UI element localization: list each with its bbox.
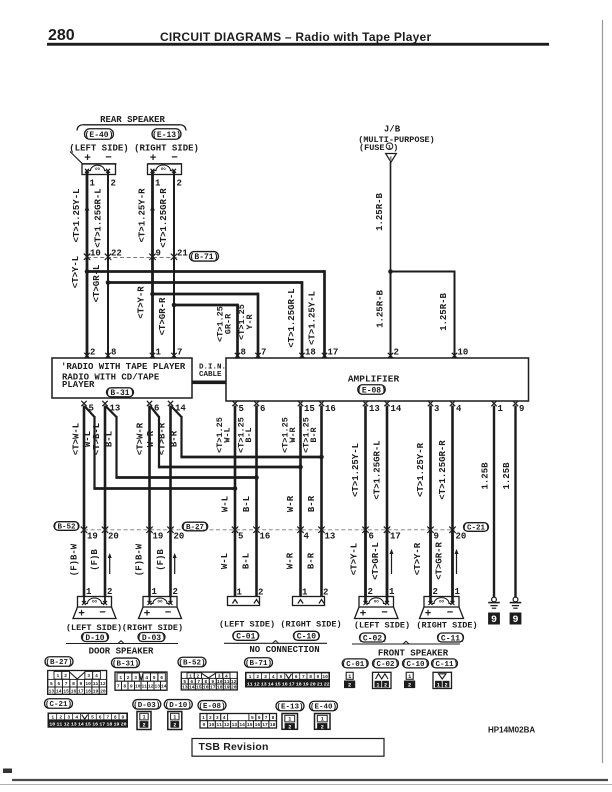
svg-text:9: 9 xyxy=(122,714,125,720)
svg-text:12: 12 xyxy=(254,681,260,687)
svg-text:(E-13): (E-13) xyxy=(152,131,181,140)
svg-text:7: 7 xyxy=(302,674,305,680)
svg-text:1: 1 xyxy=(202,715,205,721)
svg-text:6: 6 xyxy=(369,532,374,542)
svg-text:4: 4 xyxy=(304,532,310,542)
svg-text:<T>1.25GR-L: <T>1.25GR-L xyxy=(287,288,297,347)
svg-text:(RIGHT SIDE): (RIGHT SIDE) xyxy=(134,144,199,154)
svg-text:<T>GR-R: <T>GR-R xyxy=(435,542,445,580)
svg-text:oo: oo xyxy=(374,601,380,605)
svg-text:oo: oo xyxy=(161,168,167,172)
svg-text:15: 15 xyxy=(196,685,202,691)
svg-text:11: 11 xyxy=(57,722,63,728)
svg-text:13: 13 xyxy=(325,532,336,542)
svg-text:W-L: W-L xyxy=(221,496,231,512)
svg-text:W-L: W-L xyxy=(220,553,230,569)
svg-text:13: 13 xyxy=(49,688,55,694)
svg-text:(E-08): (E-08) xyxy=(198,703,225,711)
svg-text:20: 20 xyxy=(121,722,127,728)
svg-text:1: 1 xyxy=(51,714,54,720)
svg-text:W-R: W-R xyxy=(286,495,296,512)
svg-text:15: 15 xyxy=(304,404,315,414)
svg-text:11: 11 xyxy=(216,722,222,728)
svg-text:3: 3 xyxy=(134,675,137,681)
svg-text:(D-03): (D-03) xyxy=(133,702,160,710)
svg-text:REAR SPEAKER: REAR SPEAKER xyxy=(100,115,165,125)
svg-text:CIRCUIT DIAGRAMS – Radio with: CIRCUIT DIAGRAMS – Radio with Tape Playe… xyxy=(160,30,431,44)
svg-text:18: 18 xyxy=(85,688,91,694)
svg-text:12: 12 xyxy=(224,722,230,728)
svg-text:9: 9 xyxy=(79,681,82,687)
svg-text:10: 10 xyxy=(90,249,101,259)
svg-text:12: 12 xyxy=(64,722,70,728)
svg-text:(C-01): (C-01) xyxy=(231,633,260,642)
svg-text:16: 16 xyxy=(325,404,336,414)
svg-text:(B-71): (B-71) xyxy=(245,660,272,668)
svg-text:2: 2 xyxy=(348,683,351,689)
svg-text:15: 15 xyxy=(85,722,91,728)
svg-text:1: 1 xyxy=(56,673,59,679)
svg-text:(D-03): (D-03) xyxy=(137,634,166,643)
svg-text:B-R: B-R xyxy=(307,552,317,569)
svg-text:<T>Y-R: <T>Y-R xyxy=(413,542,423,575)
svg-text:10: 10 xyxy=(209,722,215,728)
svg-text:12: 12 xyxy=(100,681,106,687)
svg-text:1: 1 xyxy=(152,587,158,597)
svg-text:15: 15 xyxy=(247,722,253,728)
svg-text:5: 5 xyxy=(239,404,244,414)
svg-text:2: 2 xyxy=(59,714,62,720)
svg-text:11: 11 xyxy=(141,683,147,689)
svg-text:1: 1 xyxy=(173,715,176,721)
svg-text:13: 13 xyxy=(369,404,380,414)
svg-text:6: 6 xyxy=(160,675,163,681)
svg-text:−: − xyxy=(105,153,112,165)
svg-text:2: 2 xyxy=(444,682,447,688)
svg-text:(LEFT SIDE): (LEFT SIDE) xyxy=(69,144,128,154)
svg-text:19: 19 xyxy=(153,532,164,542)
svg-text:7: 7 xyxy=(117,683,120,689)
svg-text:5: 5 xyxy=(251,715,254,721)
svg-text:9: 9 xyxy=(434,532,439,542)
svg-text:B-L: B-L xyxy=(244,427,254,442)
svg-text:13: 13 xyxy=(182,685,188,691)
svg-text:9: 9 xyxy=(156,249,161,259)
svg-text:5: 5 xyxy=(91,714,94,720)
svg-text:(C-11): (C-11) xyxy=(436,634,465,643)
svg-text:14: 14 xyxy=(161,683,167,689)
svg-text:3: 3 xyxy=(67,714,70,720)
svg-text:5: 5 xyxy=(153,675,156,681)
svg-text:7: 7 xyxy=(65,681,68,687)
svg-text:19: 19 xyxy=(93,688,99,694)
svg-text:<T>B-L: <T>B-L xyxy=(92,423,102,455)
svg-text:<T>1.25Y-L: <T>1.25Y-L xyxy=(351,443,361,497)
svg-text:<T>1.25Y-R: <T>1.25Y-R xyxy=(416,442,426,497)
svg-text:2: 2 xyxy=(64,673,67,679)
svg-text:18: 18 xyxy=(107,722,113,728)
svg-text:4: 4 xyxy=(145,675,148,681)
svg-text:7: 7 xyxy=(261,348,266,358)
svg-text:2: 2 xyxy=(111,179,116,189)
svg-text:1: 1 xyxy=(348,674,351,680)
svg-text:6: 6 xyxy=(260,404,265,414)
svg-text:(D-10): (D-10) xyxy=(81,634,110,643)
svg-text:12: 12 xyxy=(148,683,154,689)
svg-text:(B-27): (B-27) xyxy=(45,659,72,667)
svg-text:TSB Revision: TSB Revision xyxy=(199,741,269,753)
svg-text:17: 17 xyxy=(289,681,295,687)
svg-text:9: 9 xyxy=(519,404,524,414)
svg-text:18: 18 xyxy=(305,348,316,358)
svg-text:13: 13 xyxy=(232,722,238,728)
svg-text:16: 16 xyxy=(260,532,271,542)
svg-text:(C-10): (C-10) xyxy=(402,661,429,669)
svg-text:B-L: B-L xyxy=(242,496,252,512)
svg-text:11: 11 xyxy=(247,681,253,687)
svg-text:1: 1 xyxy=(455,587,461,597)
svg-text:4: 4 xyxy=(456,404,462,414)
svg-text:(F)B: (F)B xyxy=(156,549,166,571)
svg-text:21: 21 xyxy=(177,249,188,259)
svg-text:CABLE: CABLE xyxy=(199,371,222,379)
svg-text:Y-R: Y-R xyxy=(245,313,255,329)
svg-text:B-R: B-R xyxy=(309,426,319,442)
svg-text:(RIGHT SIDE): (RIGHT SIDE) xyxy=(280,620,341,630)
svg-text:1: 1 xyxy=(86,587,92,597)
svg-text:1: 1 xyxy=(155,179,161,189)
svg-text:2: 2 xyxy=(384,682,387,688)
svg-text:2: 2 xyxy=(321,724,324,730)
svg-text:5: 5 xyxy=(50,681,53,687)
svg-text:14: 14 xyxy=(268,681,274,687)
svg-text:16: 16 xyxy=(92,722,98,728)
svg-text:8: 8 xyxy=(111,348,116,358)
svg-text:1.25R-B: 1.25R-B xyxy=(375,193,385,231)
svg-text:(F)B-W: (F)B-W xyxy=(70,543,80,576)
svg-text:10: 10 xyxy=(458,348,469,358)
svg-text:280: 280 xyxy=(48,27,75,44)
svg-text:17: 17 xyxy=(262,722,268,728)
svg-text:<T>1.25Y-L: <T>1.25Y-L xyxy=(308,291,318,345)
svg-text:1: 1 xyxy=(288,717,291,723)
svg-text:AMPLIFIER: AMPLIFIER xyxy=(348,374,400,385)
svg-text:5: 5 xyxy=(280,674,283,680)
svg-text:<T>Y-L: <T>Y-L xyxy=(71,256,81,288)
svg-text:16: 16 xyxy=(282,681,288,687)
svg-text:(RIGHT SIDE): (RIGHT SIDE) xyxy=(122,623,183,633)
svg-text:(F)B-W: (F)B-W xyxy=(135,543,145,576)
svg-text:PLAYER: PLAYER xyxy=(62,380,95,390)
svg-text:(B-31): (B-31) xyxy=(112,661,139,669)
svg-text:W-R: W-R xyxy=(146,430,156,447)
svg-text:22: 22 xyxy=(111,249,122,259)
svg-text:10: 10 xyxy=(49,722,55,728)
svg-text:4: 4 xyxy=(272,674,275,680)
svg-text:1.25B: 1.25B xyxy=(502,462,512,490)
svg-text:(B-52): (B-52) xyxy=(53,524,80,532)
svg-text:6: 6 xyxy=(57,681,60,687)
svg-text:+: + xyxy=(425,609,432,621)
svg-text:oo: oo xyxy=(157,601,163,605)
svg-text:8: 8 xyxy=(123,683,126,689)
svg-text:): ) xyxy=(393,143,398,153)
svg-text:(RIGHT SIDE): (RIGHT SIDE) xyxy=(416,621,477,631)
svg-text:B-L: B-L xyxy=(105,431,115,447)
svg-text:18: 18 xyxy=(217,685,223,691)
svg-text:<T>1.25GR-L: <T>1.25GR-L xyxy=(94,188,104,247)
svg-text:<T>B-R: <T>B-R xyxy=(157,422,167,455)
svg-text:17: 17 xyxy=(210,685,216,691)
svg-text:7: 7 xyxy=(106,714,109,720)
svg-text:−: − xyxy=(165,608,172,620)
svg-text:16: 16 xyxy=(71,688,77,694)
svg-text:14: 14 xyxy=(78,722,84,728)
svg-text:13: 13 xyxy=(261,681,267,687)
svg-text:9: 9 xyxy=(512,615,518,626)
svg-text:15: 15 xyxy=(63,688,69,694)
svg-text:+: + xyxy=(78,609,85,621)
svg-text:2: 2 xyxy=(107,587,112,597)
svg-text:20: 20 xyxy=(100,688,106,694)
svg-text:NO CONNECTION: NO CONNECTION xyxy=(249,645,319,655)
svg-text:1: 1 xyxy=(90,179,96,189)
svg-text:21: 21 xyxy=(317,681,323,687)
svg-text:4: 4 xyxy=(223,715,226,721)
svg-text:2: 2 xyxy=(177,179,182,189)
svg-text:(E-40): (E-40) xyxy=(310,704,337,712)
svg-text:−: − xyxy=(381,608,388,620)
svg-text:4: 4 xyxy=(95,673,98,679)
svg-text:3: 3 xyxy=(216,715,219,721)
svg-text:(C-01): (C-01) xyxy=(342,661,369,669)
svg-text:C: C xyxy=(390,156,393,162)
svg-text:(C-02): (C-02) xyxy=(372,661,399,669)
svg-text:19: 19 xyxy=(303,681,309,687)
svg-text:2: 2 xyxy=(209,715,212,721)
svg-text:(E-13): (E-13) xyxy=(276,704,303,712)
svg-text:19: 19 xyxy=(87,532,98,542)
svg-text:DOOR SPEAKER: DOOR SPEAKER xyxy=(89,647,154,657)
svg-text:20: 20 xyxy=(310,681,316,687)
svg-text:(C-21): (C-21) xyxy=(462,525,489,533)
svg-text:8: 8 xyxy=(72,681,75,687)
svg-text:18: 18 xyxy=(296,681,302,687)
svg-text:1: 1 xyxy=(376,682,379,688)
svg-text:2: 2 xyxy=(127,675,130,681)
svg-text:8: 8 xyxy=(309,674,312,680)
svg-text:B-R: B-R xyxy=(307,495,317,512)
svg-text:9: 9 xyxy=(130,683,133,689)
svg-text:(LEFT SIDE): (LEFT SIDE) xyxy=(354,621,410,631)
svg-text:5: 5 xyxy=(238,532,243,542)
svg-text:9: 9 xyxy=(491,615,497,626)
svg-text:16: 16 xyxy=(203,685,209,691)
svg-text:(LEFT SIDE): (LEFT SIDE) xyxy=(219,620,275,630)
svg-text:(B-27): (B-27) xyxy=(181,524,208,532)
svg-text:17: 17 xyxy=(328,348,339,358)
svg-text:(D-10): (D-10) xyxy=(165,702,192,710)
svg-text:2: 2 xyxy=(142,722,145,728)
svg-text:2: 2 xyxy=(408,683,411,689)
svg-text:10: 10 xyxy=(135,683,141,689)
svg-text:HP14M02BA: HP14M02BA xyxy=(488,726,535,735)
svg-text:1: 1 xyxy=(408,674,411,680)
svg-text:(B-71): (B-71) xyxy=(190,253,219,262)
svg-text:(B-52): (B-52) xyxy=(178,660,205,668)
svg-text:(C-21): (C-21) xyxy=(45,701,72,709)
svg-text:W-R: W-R xyxy=(286,552,296,569)
svg-text:14: 14 xyxy=(56,688,62,694)
svg-text:oo: oo xyxy=(92,601,98,605)
svg-text:<T>GR-L: <T>GR-L xyxy=(371,542,381,580)
svg-text:(C-02): (C-02) xyxy=(358,634,387,643)
svg-text:11: 11 xyxy=(93,681,99,687)
svg-text:2: 2 xyxy=(173,587,178,597)
svg-text:'RADIO WITH TAPE PLAYER: 'RADIO WITH TAPE PLAYER xyxy=(61,362,186,372)
svg-text:8: 8 xyxy=(272,715,275,721)
svg-text:7: 7 xyxy=(177,348,182,358)
svg-text:20: 20 xyxy=(108,532,119,542)
svg-text:3: 3 xyxy=(264,674,267,680)
svg-text:1.25B: 1.25B xyxy=(481,462,491,490)
svg-text:B-L: B-L xyxy=(242,553,252,569)
svg-text:9: 9 xyxy=(317,674,320,680)
svg-text:+: + xyxy=(360,609,367,621)
svg-text:(F)B: (F)B xyxy=(90,549,100,571)
svg-text:6: 6 xyxy=(258,715,261,721)
svg-text:−: − xyxy=(99,608,106,620)
svg-text:B-R: B-R xyxy=(170,430,180,447)
svg-text:18: 18 xyxy=(270,722,276,728)
svg-text:<T>1.25GR-R: <T>1.25GR-R xyxy=(438,440,448,500)
svg-text:1: 1 xyxy=(437,682,440,688)
svg-text:14: 14 xyxy=(391,404,402,414)
svg-text:2: 2 xyxy=(433,587,438,597)
svg-text:13: 13 xyxy=(154,683,160,689)
svg-text:(E-40): (E-40) xyxy=(85,131,114,140)
svg-text:2: 2 xyxy=(256,674,259,680)
svg-text:20: 20 xyxy=(174,532,185,542)
svg-text:1: 1 xyxy=(142,715,145,721)
svg-text:17: 17 xyxy=(99,722,105,728)
svg-text:2: 2 xyxy=(288,724,291,730)
svg-text:<T>1.25GR-R: <T>1.25GR-R xyxy=(159,188,169,248)
svg-text:20: 20 xyxy=(231,685,237,691)
svg-text:14: 14 xyxy=(239,722,245,728)
svg-text:1: 1 xyxy=(321,717,324,723)
svg-text:<T>1.25GR-L: <T>1.25GR-L xyxy=(373,440,383,499)
svg-text:GR-R: GR-R xyxy=(224,313,234,334)
svg-text:3: 3 xyxy=(434,404,439,414)
svg-text:2: 2 xyxy=(173,722,176,728)
svg-text:10: 10 xyxy=(85,681,91,687)
svg-text:−: − xyxy=(171,153,178,165)
svg-text:6: 6 xyxy=(99,714,102,720)
svg-text:(E-08): (E-08) xyxy=(357,386,386,395)
svg-text:1: 1 xyxy=(389,587,395,597)
svg-text:4: 4 xyxy=(75,714,78,720)
svg-text:9: 9 xyxy=(202,722,205,728)
svg-text:2: 2 xyxy=(368,587,373,597)
svg-text:22: 22 xyxy=(324,681,330,687)
svg-text:(FUSE: (FUSE xyxy=(359,143,385,153)
svg-text:(LEFT SIDE): (LEFT SIDE) xyxy=(66,623,122,633)
svg-text:J/B: J/B xyxy=(384,125,401,135)
svg-text:(C-11): (C-11) xyxy=(431,661,458,669)
svg-text:6: 6 xyxy=(295,674,298,680)
svg-text:7: 7 xyxy=(265,715,268,721)
svg-text:−: − xyxy=(447,608,454,620)
svg-text:19: 19 xyxy=(114,722,120,728)
svg-text:oo: oo xyxy=(439,601,445,605)
svg-text:oo: oo xyxy=(95,168,101,172)
svg-text:1: 1 xyxy=(156,348,162,358)
svg-text:+: + xyxy=(144,609,151,621)
svg-text:15: 15 xyxy=(275,681,281,687)
svg-text:1: 1 xyxy=(249,674,252,680)
svg-text:10: 10 xyxy=(322,674,328,680)
svg-text:1: 1 xyxy=(119,675,122,681)
svg-text:3: 3 xyxy=(87,673,90,679)
svg-text:1.25R-B: 1.25R-B xyxy=(439,293,449,331)
svg-text:<T>1.25Y-R: <T>1.25Y-R xyxy=(138,188,148,243)
svg-text:<T>1.25Y-L: <T>1.25Y-L xyxy=(72,188,82,242)
svg-text:FRONT SPEAKER: FRONT SPEAKER xyxy=(378,649,449,659)
svg-text:<T>W-L: <T>W-L xyxy=(72,423,82,455)
svg-text:1.25R-B: 1.25R-B xyxy=(376,290,386,328)
svg-text:2: 2 xyxy=(90,348,95,358)
svg-text:14: 14 xyxy=(189,685,195,691)
svg-text:16: 16 xyxy=(255,722,261,728)
svg-text:<T>Y-L: <T>Y-L xyxy=(350,543,360,575)
svg-text:2: 2 xyxy=(394,348,399,358)
svg-text:<T>W-R: <T>W-R xyxy=(135,422,145,455)
svg-text:<T>Y-R: <T>Y-R xyxy=(137,286,147,319)
svg-text:1: 1 xyxy=(498,404,504,414)
svg-text:8: 8 xyxy=(114,714,117,720)
svg-text:17: 17 xyxy=(78,688,84,694)
svg-text:<T>GR-R: <T>GR-R xyxy=(158,297,168,335)
svg-text:20: 20 xyxy=(456,532,467,542)
svg-text:W-L: W-L xyxy=(223,427,233,442)
svg-text:17: 17 xyxy=(390,532,401,542)
svg-text:13: 13 xyxy=(71,722,77,728)
svg-text:W-R: W-R xyxy=(288,426,298,442)
svg-text:(C-10): (C-10) xyxy=(292,633,321,642)
svg-text:19: 19 xyxy=(224,685,230,691)
svg-text:(B-31): (B-31) xyxy=(106,389,135,398)
svg-text:8: 8 xyxy=(241,348,246,358)
